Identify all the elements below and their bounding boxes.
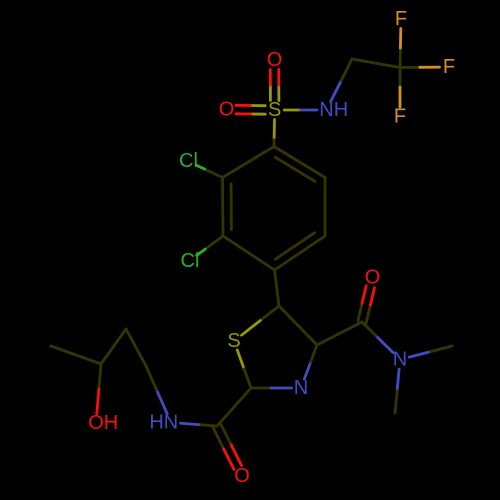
bond C2-F2: [400, 66, 440, 69]
bond T2-C4a: [217, 388, 251, 426]
bond TS-T2: [237, 350, 251, 388]
bond N1-C1: [331, 59, 352, 102]
svg-text:Cl: Cl: [179, 150, 198, 172]
svg-text:OH: OH: [88, 412, 118, 434]
bond N3h-Ch: [146, 366, 167, 414]
bond B5-Cl2: [197, 236, 223, 255]
bond N2-M2: [409, 346, 452, 357]
bond N2-M3: [395, 369, 399, 413]
bond T5-TS: [242, 306, 280, 335]
svg-text:O: O: [365, 267, 381, 289]
bond B4-B5: [223, 236, 275, 270]
svg-text:NH: NH: [319, 99, 348, 121]
bond T4-T5: [279, 306, 317, 345]
svg-text:O: O: [219, 99, 235, 121]
bond S1-N1: [284, 109, 317, 112]
svg-text:O: O: [267, 49, 283, 71]
bond C2-F1: [399, 29, 403, 68]
svg-text:F: F: [443, 56, 455, 78]
bond B3-B4: [275, 233, 326, 270]
bond T4-C3: [317, 322, 362, 345]
bond B1-B2: [274, 147, 325, 182]
bond S1-O2: [236, 105, 265, 114]
bond B2-B3: [324, 178, 327, 237]
bond T2-TN: [251, 387, 292, 390]
svg-text:N: N: [393, 349, 407, 371]
svg-text:F: F: [394, 106, 406, 128]
svg-text:F: F: [395, 8, 407, 30]
bond Coh-O5: [97, 364, 101, 414]
bond Coh-M1: [51, 346, 101, 364]
bond Cx-Coh: [101, 329, 126, 364]
svg-text:S: S: [227, 330, 240, 352]
bond C3-O3: [358, 286, 375, 323]
bond S1-B1: [273, 120, 276, 147]
bond B6-Cl1: [196, 165, 222, 177]
bond S1-O1: [270, 70, 279, 101]
bond C4a-N3h: [181, 423, 218, 426]
svg-text:Cl: Cl: [181, 250, 200, 272]
bond C3-N2: [362, 322, 393, 353]
bond C4a-O4: [213, 424, 241, 469]
bond TN-T4: [304, 345, 317, 379]
svg-text:O: O: [234, 465, 250, 487]
bond C2-F3: [399, 68, 402, 108]
bond C1-C2: [352, 59, 400, 68]
svg-text:S: S: [268, 99, 281, 121]
bond B4-T5: [275, 270, 280, 306]
bond B6-B1: [223, 147, 275, 178]
svg-text:HN: HN: [149, 412, 178, 434]
bond Ch-Cx: [126, 329, 146, 366]
svg-text:N: N: [294, 377, 308, 399]
bond B5-B6: [223, 178, 232, 237]
